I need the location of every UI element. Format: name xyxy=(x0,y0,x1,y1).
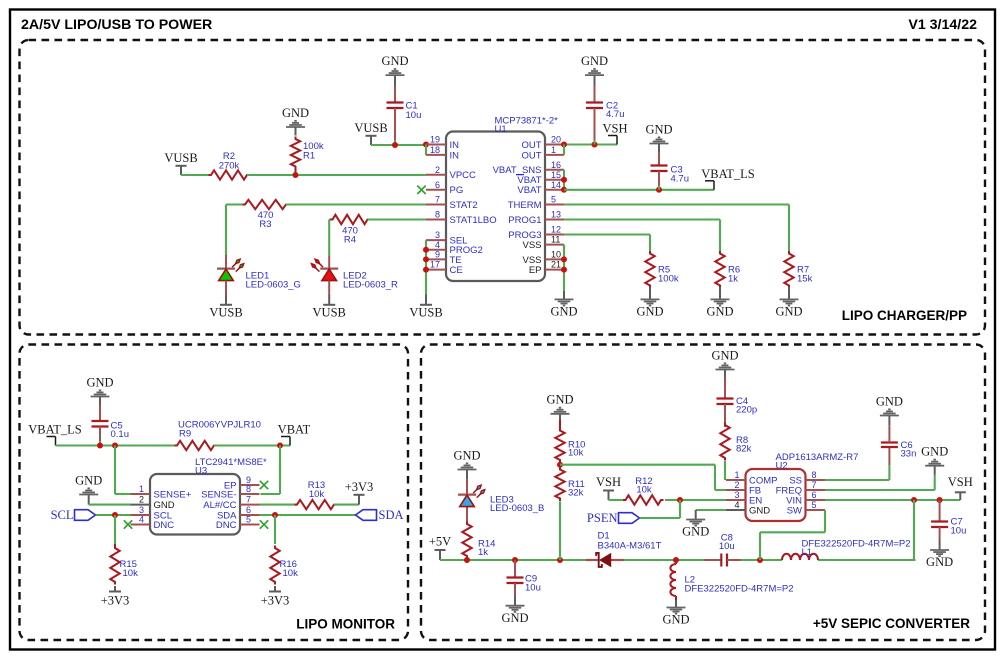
svg-text:SENSE+: SENSE+ xyxy=(154,489,192,500)
svg-text:DFE322520FD-4R7M=P2: DFE322520FD-4R7M=P2 xyxy=(802,538,911,549)
svg-text:GND: GND xyxy=(706,305,733,319)
svg-text:19: 19 xyxy=(430,135,440,145)
svg-text:GND: GND xyxy=(662,613,689,627)
svg-text:VSH: VSH xyxy=(596,475,621,489)
svg-text:GND: GND xyxy=(501,611,528,625)
svg-text:GND: GND xyxy=(876,394,903,408)
svg-text:11: 11 xyxy=(551,235,560,245)
svg-text:PG: PG xyxy=(450,185,464,196)
svg-text:STAT2: STAT2 xyxy=(450,200,478,211)
svg-text:GND: GND xyxy=(775,305,802,319)
svg-text:GND: GND xyxy=(645,122,672,136)
svg-text:14: 14 xyxy=(551,180,561,190)
svg-text:6: 6 xyxy=(435,180,440,190)
svg-text:10u: 10u xyxy=(406,110,422,121)
svg-text:GND: GND xyxy=(711,348,738,362)
svg-text:32k: 32k xyxy=(568,488,584,499)
svg-text:82k: 82k xyxy=(736,444,752,455)
svg-text:GND: GND xyxy=(86,375,113,389)
svg-text:R1: R1 xyxy=(303,151,315,162)
svg-text:10k: 10k xyxy=(568,447,584,458)
svg-text:DNC: DNC xyxy=(154,520,175,531)
svg-text:13: 13 xyxy=(551,210,561,220)
svg-text:GND: GND xyxy=(154,500,175,511)
svg-text:15k: 15k xyxy=(797,274,813,285)
svg-text:4: 4 xyxy=(139,515,144,525)
svg-text:U3: U3 xyxy=(195,465,207,476)
svg-text:2A/5V LIPO/USB TO POWER: 2A/5V LIPO/USB TO POWER xyxy=(21,17,212,33)
svg-text:LIPO MONITOR: LIPO MONITOR xyxy=(296,617,395,632)
svg-text:DNC: DNC xyxy=(216,520,237,531)
svg-text:VUSB: VUSB xyxy=(209,306,242,320)
svg-text:+3V3: +3V3 xyxy=(261,594,290,608)
svg-text:SCL: SCL xyxy=(51,508,74,522)
svg-text:6: 6 xyxy=(246,505,251,515)
svg-text:VSH: VSH xyxy=(948,475,973,489)
svg-text:LED-0603_B: LED-0603_B xyxy=(490,503,544,514)
svg-text:3: 3 xyxy=(435,230,440,240)
svg-text:5: 5 xyxy=(812,500,817,510)
svg-text:GND: GND xyxy=(550,305,577,319)
svg-text:L1: L1 xyxy=(802,547,813,558)
svg-text:+5V SEPIC CONVERTER: +5V SEPIC CONVERTER xyxy=(813,616,970,631)
svg-text:R4: R4 xyxy=(344,235,356,246)
svg-text:7: 7 xyxy=(812,480,817,490)
svg-text:2: 2 xyxy=(435,165,440,175)
svg-text:4.7u: 4.7u xyxy=(606,109,625,120)
svg-text:SW: SW xyxy=(787,505,802,516)
svg-text:VSH: VSH xyxy=(602,122,627,136)
svg-text:10u: 10u xyxy=(525,583,541,594)
svg-text:1k: 1k xyxy=(728,274,738,285)
svg-text:1: 1 xyxy=(734,470,739,480)
svg-text:U1: U1 xyxy=(495,124,507,135)
svg-text:1k: 1k xyxy=(478,547,488,558)
svg-text:THERM: THERM xyxy=(508,200,542,211)
svg-text:220p: 220p xyxy=(736,405,757,416)
svg-text:CE: CE xyxy=(450,265,463,276)
svg-text:R9: R9 xyxy=(179,429,191,440)
svg-text:LIPO CHARGER/PP: LIPO CHARGER/PP xyxy=(842,308,967,323)
svg-text:10k: 10k xyxy=(636,485,652,496)
svg-text:LED-0603_R: LED-0603_R xyxy=(343,280,398,291)
svg-text:3: 3 xyxy=(139,505,144,515)
svg-text:GND: GND xyxy=(282,106,309,120)
svg-text:4.7u: 4.7u xyxy=(671,173,690,184)
svg-text:4: 4 xyxy=(734,500,739,510)
svg-text:VUSB: VUSB xyxy=(409,306,442,320)
svg-text:9: 9 xyxy=(435,249,440,259)
svg-text:SDA: SDA xyxy=(379,508,404,522)
svg-text:GND: GND xyxy=(682,525,709,539)
svg-text:6: 6 xyxy=(812,490,817,500)
svg-text:R3: R3 xyxy=(259,219,271,230)
svg-text:5: 5 xyxy=(246,515,251,525)
svg-text:1: 1 xyxy=(551,145,556,155)
svg-text:15: 15 xyxy=(551,170,561,180)
svg-text:+5V: +5V xyxy=(429,535,451,549)
svg-text:17: 17 xyxy=(430,260,440,270)
svg-text:7: 7 xyxy=(435,195,440,205)
svg-text:33n: 33n xyxy=(901,449,917,460)
svg-text:AL#/CC: AL#/CC xyxy=(203,500,236,511)
svg-text:VBAT_LS: VBAT_LS xyxy=(701,167,755,181)
svg-text:21: 21 xyxy=(551,260,561,270)
svg-text:OUT: OUT xyxy=(521,150,541,161)
svg-text:3: 3 xyxy=(734,490,739,500)
svg-text:PROG1: PROG1 xyxy=(508,215,541,226)
svg-text:10u: 10u xyxy=(719,541,735,552)
svg-text:STAT1LBO: STAT1LBO xyxy=(450,215,497,226)
svg-text:10k: 10k xyxy=(283,568,299,579)
svg-text:8: 8 xyxy=(812,470,817,480)
svg-text:IN: IN xyxy=(450,140,460,151)
svg-text:VUSB: VUSB xyxy=(313,306,346,320)
svg-text:VBAT: VBAT xyxy=(278,423,311,437)
svg-text:GND: GND xyxy=(926,555,953,569)
svg-text:DFE322520FD-4R7M=P2: DFE322520FD-4R7M=P2 xyxy=(685,583,794,594)
svg-text:8: 8 xyxy=(435,210,440,220)
svg-text:VUSB: VUSB xyxy=(164,151,197,165)
svg-text:EP: EP xyxy=(529,265,542,276)
svg-text:18: 18 xyxy=(430,145,440,155)
svg-text:10k: 10k xyxy=(309,489,325,500)
svg-text:U2: U2 xyxy=(776,461,788,472)
svg-text:270k: 270k xyxy=(219,161,240,172)
svg-text:GND: GND xyxy=(75,473,102,487)
svg-text:20: 20 xyxy=(551,135,561,145)
svg-text:+3V3: +3V3 xyxy=(101,594,130,608)
svg-text:B340A-M3/61T: B340A-M3/61T xyxy=(598,541,662,552)
svg-text:OUT: OUT xyxy=(521,140,541,151)
svg-text:GND: GND xyxy=(749,505,770,516)
svg-text:GND: GND xyxy=(636,305,663,319)
svg-text:LED-0603_G: LED-0603_G xyxy=(246,280,301,291)
svg-text:VBAT_LS: VBAT_LS xyxy=(28,423,82,437)
svg-text:V1 3/14/22: V1 3/14/22 xyxy=(908,17,977,33)
svg-text:VUSB: VUSB xyxy=(354,121,387,135)
svg-text:0.1u: 0.1u xyxy=(111,429,130,440)
svg-text:IN: IN xyxy=(450,150,460,161)
svg-text:1: 1 xyxy=(139,484,144,494)
svg-text:+3V3: +3V3 xyxy=(345,480,374,494)
svg-text:GND: GND xyxy=(381,54,408,68)
svg-text:7: 7 xyxy=(246,495,251,505)
svg-text:GND: GND xyxy=(581,54,608,68)
svg-text:GND: GND xyxy=(453,448,480,462)
svg-text:4: 4 xyxy=(435,240,440,250)
svg-text:SENSE-: SENSE- xyxy=(201,489,236,500)
svg-text:2: 2 xyxy=(734,480,739,490)
svg-text:8: 8 xyxy=(246,484,251,494)
svg-text:10k: 10k xyxy=(123,568,139,579)
svg-text:5: 5 xyxy=(551,195,556,205)
svg-text:GND: GND xyxy=(546,393,573,407)
svg-text:ADP1613ARMZ-R7: ADP1613ARMZ-R7 xyxy=(776,452,859,463)
svg-text:16: 16 xyxy=(551,160,561,170)
svg-text:12: 12 xyxy=(551,225,561,235)
svg-text:VPCC: VPCC xyxy=(450,170,477,181)
svg-text:2: 2 xyxy=(139,495,144,505)
svg-text:10u: 10u xyxy=(951,525,967,536)
svg-text:100k: 100k xyxy=(658,274,679,285)
svg-text:VSS: VSS xyxy=(522,240,541,251)
svg-text:10: 10 xyxy=(551,249,561,259)
svg-text:PSEN: PSEN xyxy=(587,511,618,525)
svg-text:GND: GND xyxy=(921,445,948,459)
svg-text:VBAT: VBAT xyxy=(517,185,541,196)
